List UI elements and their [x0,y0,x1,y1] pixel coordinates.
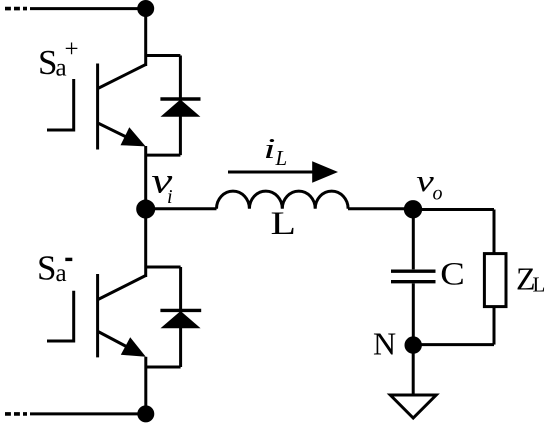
IGBT Q1 (S_a+) [47,64,146,150]
wire: Q1 emitter to diode D1 bottom [146,154,181,157]
bottom DC rail wire [30,412,146,415]
wire: node vi to inductor [146,207,217,210]
inductor L [217,191,349,209]
diode D1 [160,56,200,156]
svg-text:v: v [416,163,434,198]
wire: vo to load branch corner [413,208,494,211]
label i_L [264,133,288,170]
wire: top node to Q1 collector [144,9,147,67]
label v_o [416,163,442,205]
wire: load branch down to Z_L [493,210,496,254]
IGBT Q2 (S_a-) [47,274,146,357]
ground symbol [390,395,436,418]
top DC rail dashed stub [5,7,27,11]
junction dot: bottom rail node [139,407,153,421]
wire: Q2 emitter to bottom rail node [144,357,147,414]
diode D2 [160,267,201,367]
wire: Z_L bottom to N rail [493,307,496,345]
svg-text:+: + [65,36,79,63]
svg-text:N: N [373,326,396,362]
wire: Q1 collector to diode D1 top [146,54,181,57]
label v_i [151,161,172,208]
label S_a- [37,249,72,288]
svg-text:L: L [271,206,297,242]
node vo dot [405,202,420,217]
current arrow i_L [228,161,338,183]
wire: capacitor to node N [412,284,415,346]
capacitor C [391,271,436,282]
wire: Q2 collector to diode D2 top [146,266,181,269]
svg-text:o: o [433,183,443,205]
bottom DC rail dashed stub [5,412,27,416]
load Z_L rectangle [484,254,506,307]
svg-text:i: i [167,186,173,208]
node vi dot [138,201,154,217]
label S_a+ [38,36,79,82]
wire: inductor to node vo [348,207,413,210]
wire: Q2 emitter to diode D2 bottom [146,366,181,369]
svg-text:C: C [440,257,465,293]
junction dot: top rail node [139,2,153,16]
node N dot [406,338,420,352]
wire: vo down to capacitor [412,210,415,270]
top DC rail wire [30,7,146,10]
svg-text:L: L [533,273,546,297]
wire: node vi down to Q2 collector [144,209,147,277]
wire: N node to load branch [413,343,494,346]
svg-text:i: i [264,133,276,165]
wire: N to ground [412,345,415,395]
svg-text:L: L [275,146,288,170]
wire: Q1 emitter down to node vi [144,146,147,209]
svg-text:a: a [56,260,67,287]
svg-text:S: S [37,249,56,288]
label Z_L [516,261,545,297]
